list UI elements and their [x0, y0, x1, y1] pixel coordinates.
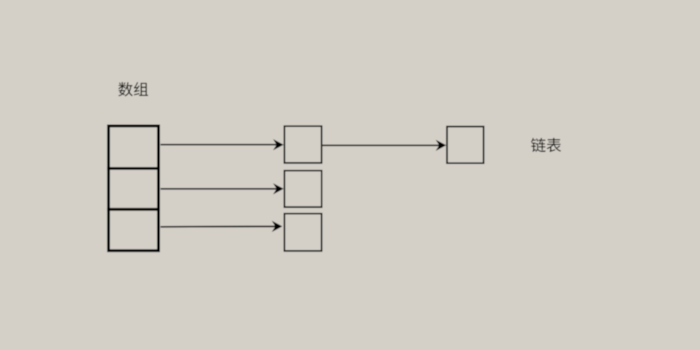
label 数组 (array) [118, 82, 148, 96]
array cell divider 1 [107, 167, 160, 170]
wire arrow 4: node box 1 to node box 4 [323, 140, 447, 151]
array cell divider 2 [107, 208, 160, 211]
wire arrow 2: array cell 2 to node box 2 [161, 183, 284, 194]
linked-list node box 2 [284, 171, 321, 207]
wire arrow 1: array cell 1 to node box 1 [161, 139, 284, 150]
linked-list node box 3 [284, 214, 321, 251]
wire arrow 3: array cell 3 to node box 3 [161, 221, 283, 232]
label 链表 (linked list) [531, 138, 561, 152]
array box (3-cell column) [109, 126, 159, 251]
linked-list node box 1 [284, 126, 321, 163]
linked-list node box 4 [447, 127, 484, 164]
